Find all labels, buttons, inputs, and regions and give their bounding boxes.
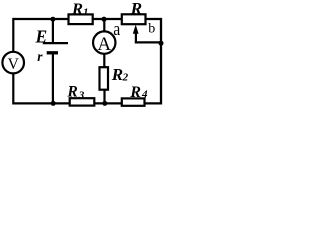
ammeter A <box>93 19 115 55</box>
resistor R4 <box>122 84 148 106</box>
node: wiper junction on right rail <box>159 41 164 46</box>
wire: outer loop top <box>13 18 161 20</box>
wire: wiper arm horizontal to right rail <box>135 41 161 43</box>
battery E long plate <box>43 42 68 44</box>
wire: outer loop left <box>12 18 14 105</box>
resistor R3 <box>66 83 94 105</box>
wire: battery branch upper <box>52 19 54 43</box>
wire: wiper arm vertical shaft <box>135 33 137 42</box>
svg-text:V: V <box>8 56 20 73</box>
svg-text:4: 4 <box>141 89 148 101</box>
svg-text:E: E <box>35 26 48 46</box>
node: bottom junction of battery branch <box>51 101 56 106</box>
svg-text:r: r <box>37 49 43 64</box>
wire: battery branch lower <box>52 53 54 104</box>
svg-text:1: 1 <box>83 7 89 19</box>
wire: outer loop bottom <box>13 102 161 104</box>
node: bottom junction of ammeter branch <box>102 101 107 106</box>
node: top junction of ammeter branch <box>101 17 106 22</box>
svg-text:3: 3 <box>78 89 85 101</box>
battery E short thick plate <box>47 51 58 54</box>
svg-text:A: A <box>97 34 111 55</box>
svg-text:b: b <box>148 21 155 36</box>
node: top junction of battery branch <box>50 17 55 22</box>
rheostat wiper arrowhead <box>133 25 139 34</box>
wire: R2 to bottom wire <box>103 89 105 103</box>
resistor R2 <box>100 65 129 90</box>
svg-text:R: R <box>71 1 83 18</box>
svg-text:R: R <box>130 0 143 18</box>
wire: ammeter to R2 <box>103 53 105 68</box>
resistor R1 <box>69 1 93 24</box>
svg-text:R: R <box>66 83 78 100</box>
svg-text:2: 2 <box>122 72 129 84</box>
svg-text:R: R <box>111 65 123 84</box>
rheostat R <box>122 0 146 24</box>
voltmeter V <box>2 52 24 74</box>
svg-text:R: R <box>129 84 141 101</box>
wire: outer loop right <box>160 18 162 105</box>
